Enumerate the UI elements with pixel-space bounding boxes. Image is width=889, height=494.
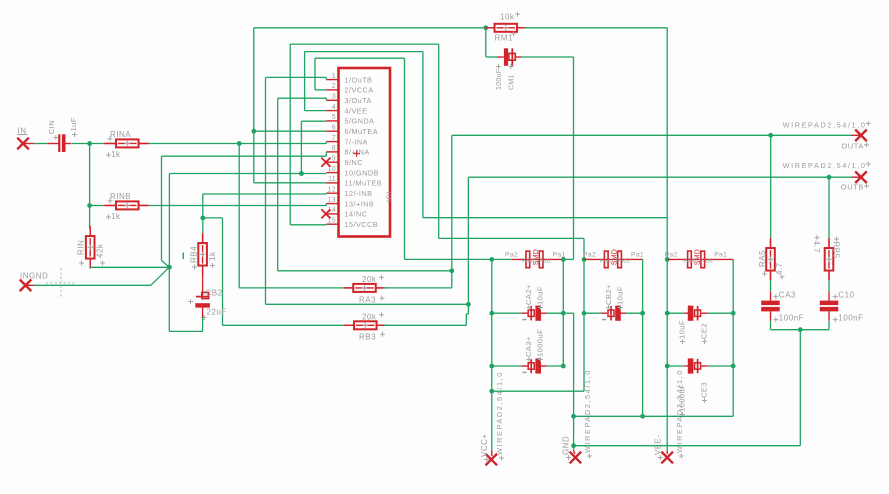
- svg-text:RINB: RINB: [110, 192, 131, 201]
- wire VEE vertical: [304, 52, 306, 111]
- wire -INB down: [202, 194, 204, 218]
- wire: [89, 206, 91, 229]
- svg-text:1k: 1k: [111, 150, 121, 159]
- svg-text:4.7: 4.7: [812, 241, 821, 254]
- wire: [89, 144, 91, 206]
- resistor RIN 42k: [89, 226, 91, 268]
- pin 6 6/MuTEA stub: [326, 130, 339, 132]
- capacitor CB2 10uF: [610, 306, 612, 320]
- RM1 right lead: [517, 27, 524, 29]
- wire INGND run: [33, 284, 151, 286]
- RB4 top lead: [202, 236, 204, 244]
- jog at pin15: [325, 223, 327, 226]
- RB4 to CB2 stub: [202, 266, 204, 296]
- svg-text:OUTB: OUTB: [841, 183, 864, 192]
- svg-text:CA3: CA3: [779, 290, 796, 299]
- OUTB pad stub: [851, 176, 861, 178]
- wire pin1 OuTB row: [266, 303, 469, 305]
- wire filter ground return: [574, 445, 801, 447]
- junction OUTB to RB5: [827, 175, 832, 180]
- wire: [702, 365, 708, 367]
- pin 2 2/VCCA stub: [326, 89, 339, 91]
- pin 11 11/MuTEB stub: [326, 182, 339, 184]
- CIN right stub: [66, 143, 72, 145]
- capacitor CIN 1uF: [58, 134, 60, 152]
- wire pin3 vertical: [277, 98, 279, 271]
- junction input node B: [87, 203, 92, 208]
- svg-text:22uF: 22uF: [207, 308, 227, 317]
- svg-text:1k: 1k: [208, 251, 217, 261]
- svg-text:WIREPAD2,54/1,0: WIREPAD2,54/1,0: [495, 371, 504, 455]
- svg-text:RB4: RB4: [190, 246, 199, 263]
- wire: [547, 365, 564, 367]
- junction CB2 right: [640, 311, 645, 316]
- Pa2 stub group2: [584, 258, 613, 260]
- svg-text:CB2+: CB2+: [604, 284, 613, 305]
- wire VCCB top row: [290, 43, 439, 45]
- OUTA pad stub: [851, 134, 861, 136]
- svg-text:C10: C10: [838, 290, 854, 299]
- wire: [492, 365, 522, 367]
- wire: [541, 365, 547, 367]
- svg-text:10k: 10k: [500, 12, 515, 21]
- wire ground column: [168, 174, 170, 268]
- junction group1 Pa1: [561, 257, 566, 262]
- svg-text:RB5: RB5: [831, 242, 840, 259]
- svg-text:Pad2: Pad2: [683, 258, 697, 264]
- Pa2 stub group3: [667, 258, 696, 260]
- wire GND tie row: [574, 415, 734, 417]
- svg-text:VCC+: VCC+: [480, 433, 489, 457]
- pad X: [321, 158, 330, 167]
- sheet origin cross: [46, 268, 76, 298]
- wire: [491, 451, 493, 457]
- svg-text:WIREPAD2,54/1,0: WIREPAD2,54/1,0: [583, 369, 592, 453]
- junction GND return tie: [571, 443, 576, 448]
- wire VCC+ tie row: [492, 390, 584, 392]
- wire OUTB row: [468, 176, 851, 178]
- wire VEE across to VEE column: [423, 217, 667, 219]
- pin 14 14/NC stub: [326, 213, 339, 215]
- wire VCCB vertical: [289, 44, 291, 225]
- svg-text:IC1: IC1: [387, 190, 394, 202]
- pad X: [17, 138, 29, 150]
- svg-text:6/MuTEA: 6/MuTEA: [345, 127, 379, 136]
- svg-text:9: 9: [332, 155, 336, 162]
- RA5 top lead: [770, 239, 772, 248]
- wire C10 bottom: [828, 321, 830, 330]
- pin 4 4/VEE stub: [326, 110, 339, 112]
- RA3 right lead: [376, 287, 383, 289]
- wire: [684, 365, 688, 367]
- wire jog to GND drop: [563, 312, 573, 314]
- jog at pin13: [325, 204, 327, 206]
- svg-text:INGND: INGND: [20, 272, 48, 281]
- pin 13 13/+INB stub: [326, 203, 339, 205]
- svg-text:100nF: 100nF: [779, 313, 804, 322]
- svg-text:1k: 1k: [111, 212, 121, 221]
- wire RM1 to VEE column: [525, 27, 668, 29]
- svg-text:Pa2: Pa2: [583, 252, 596, 259]
- wire -INB to RB3 leg: [203, 217, 223, 219]
- wire diagonal to ground node: [151, 267, 170, 285]
- RINA left lead: [104, 143, 116, 145]
- svg-text:1: 1: [332, 73, 336, 80]
- wire VCCA vertical: [314, 58, 316, 90]
- svg-text:3/OuTA: 3/OuTA: [345, 96, 372, 105]
- wire: [708, 312, 734, 314]
- wire OUTA leg vertical: [451, 136, 453, 288]
- svg-text:CB2: CB2: [206, 288, 223, 297]
- wire VCCA top row: [315, 57, 405, 59]
- op-amp IC1 body: [339, 68, 391, 237]
- capacitor C10 100nF: [820, 301, 839, 306]
- svg-text:15: 15: [328, 217, 336, 224]
- svg-text:100uF: 100uF: [496, 69, 503, 90]
- pin 15 15/VCCB stub: [326, 223, 339, 225]
- svg-text:WIREPAD2,54/1,0: WIREPAD2,54/1,0: [783, 121, 867, 130]
- jog: [466, 313, 468, 315]
- wire pin6 MuTEA: [254, 130, 326, 132]
- wire pin3 OuTA row: [278, 270, 452, 272]
- jumper SMD2 pads Pa1/Pa2: [604, 251, 608, 268]
- wire -INA feedback vertical: [238, 144, 240, 288]
- RB5 bottom lead: [828, 271, 830, 281]
- svg-text:IN: IN: [18, 126, 27, 135]
- junction group2 Pa2: [582, 257, 587, 262]
- IC symbol origin cross: [353, 150, 360, 157]
- pad X: [20, 280, 32, 292]
- svg-text:6: 6: [332, 124, 336, 131]
- junction mute node: [483, 25, 488, 30]
- junction group3 Pa2: [665, 257, 670, 262]
- RM1 left lead: [488, 27, 495, 29]
- pin 7 7/-INA stub: [326, 141, 339, 143]
- RINB left lead: [104, 205, 116, 207]
- RB5 top lead: [828, 239, 830, 248]
- svg-text:RIN: RIN: [77, 240, 86, 255]
- wire: [492, 312, 522, 314]
- svg-text:Pad2: Pad2: [522, 258, 536, 264]
- wire: [667, 312, 684, 314]
- wire OUTA row: [452, 134, 851, 136]
- svg-text:20k: 20k: [362, 313, 377, 322]
- CB2 bottom stub: [202, 308, 204, 318]
- junction OUTB net: [466, 302, 471, 307]
- wire RIN to ground node: [90, 266, 169, 268]
- svg-text:5: 5: [332, 114, 336, 121]
- wire: [620, 312, 626, 314]
- wire: [541, 312, 547, 314]
- wire VEE top row: [305, 51, 423, 53]
- wire pin8 ground leg: [162, 155, 327, 157]
- svg-text:Pad2: Pad2: [537, 258, 551, 264]
- svg-text:CA2+: CA2+: [524, 284, 533, 305]
- resistor RA3 20k: [343, 287, 386, 289]
- RINB right lead: [139, 205, 149, 207]
- wire -INB to RB4: [202, 218, 204, 236]
- svg-text:Pa1: Pa1: [631, 252, 644, 259]
- pin 12 12/-INB stub: [326, 192, 339, 194]
- wire into Pa2 of group 2: [583, 238, 585, 259]
- pin 5 5/GNDA stub: [326, 120, 339, 122]
- jumper SMD1 pads Pa1/Pa2: [526, 251, 530, 268]
- jog at pin12: [325, 192, 327, 195]
- C10 top lead: [828, 291, 830, 301]
- svg-text:2: 2: [332, 83, 336, 90]
- capacitor CA3 100nF: [761, 301, 780, 306]
- Pa1 stub group3: [696, 258, 733, 260]
- wire GND drop: [573, 313, 575, 450]
- wire: [521, 312, 527, 314]
- svg-text:CE2: CE2: [700, 323, 709, 339]
- svg-text:12/-INB: 12/-INB: [345, 189, 373, 198]
- wire pin3 OuTA: [278, 97, 327, 99]
- RINA right lead: [139, 143, 149, 145]
- svg-text:10/GNDB: 10/GNDB: [345, 168, 379, 177]
- jumper SMD3 pads Pa1/Pa2: [688, 251, 692, 268]
- svg-text:1000uF: 1000uF: [535, 329, 544, 357]
- svg-text:13/+INB: 13/+INB: [345, 199, 375, 208]
- wire filter ground drop: [799, 330, 801, 446]
- svg-text:3: 3: [332, 93, 336, 100]
- Pa2 stub group1: [512, 258, 535, 260]
- svg-text:4: 4: [332, 104, 336, 111]
- junction CA2 left: [489, 311, 494, 316]
- junction GND tie: [571, 414, 576, 419]
- wire pin4 VEE: [305, 110, 327, 112]
- wire pin1 OuTB: [266, 76, 327, 78]
- wire: [168, 267, 170, 331]
- wire GNDA down to GNDB: [300, 121, 302, 173]
- wire: [708, 365, 734, 367]
- svg-text:WIREPAD2,54/1,0: WIREPAD2,54/1,0: [675, 369, 684, 453]
- svg-text:Pa2: Pa2: [505, 252, 518, 259]
- svg-text:CE3: CE3: [700, 382, 709, 398]
- svg-text:4/VEE: 4/VEE: [345, 106, 368, 115]
- junction OUTA net: [449, 268, 454, 273]
- wire RINB to pin13: [149, 205, 327, 207]
- wire group2 left rail: [583, 259, 585, 391]
- junction mute A: [251, 129, 256, 134]
- junction CE2 left: [665, 311, 670, 316]
- wire VCCA down to bank row: [404, 58, 406, 259]
- wire IN to CIN: [34, 143, 47, 145]
- svg-text:RA5: RA5: [758, 250, 767, 267]
- wire: [547, 312, 564, 314]
- wire: [666, 451, 668, 455]
- junction CA3 left: [489, 364, 494, 369]
- wire to CM1: [486, 56, 498, 58]
- Pa1 stub group2: [613, 258, 643, 260]
- CM1 right lead: [516, 56, 522, 58]
- svg-text:2/VCCA: 2/VCCA: [345, 86, 374, 95]
- junction GND at pin10: [299, 171, 304, 176]
- junction VCC+ rail top: [489, 257, 494, 262]
- pin 9 9/NC stub: [326, 161, 339, 163]
- jog at pin7: [325, 142, 327, 144]
- wire bank row VCC feed: [405, 258, 512, 260]
- CA3 bottom lead: [770, 311, 772, 321]
- RIN bottom lead: [89, 259, 91, 268]
- stray wire tick: [182, 253, 184, 260]
- pad X: [570, 452, 582, 464]
- svg-text:Pad2: Pad2: [600, 258, 614, 264]
- svg-text:10uF: 10uF: [678, 320, 687, 339]
- junction CE3 right: [731, 364, 736, 369]
- svg-text:10: 10: [328, 166, 336, 173]
- wire OUTB down to RB5: [828, 177, 830, 239]
- junction CE2 right: [731, 311, 736, 316]
- wire pin10 GNDB row: [169, 173, 326, 175]
- pad X: [855, 130, 867, 142]
- junction group2 rail bottom: [640, 414, 645, 419]
- wire node B to RINB: [90, 205, 104, 207]
- svg-text:12: 12: [328, 186, 336, 193]
- junction feedback A tap: [237, 141, 242, 146]
- INGND pad stub: [26, 284, 34, 286]
- svg-text:10uF: 10uF: [535, 286, 544, 305]
- wire RB5 to C10: [828, 280, 830, 291]
- wire: [667, 365, 684, 367]
- RA3 left lead: [346, 287, 355, 289]
- wire VCCB to cap bank: [439, 237, 584, 239]
- svg-text:OUTA: OUTA: [841, 142, 864, 151]
- svg-text:42k: 42k: [96, 243, 105, 258]
- svg-text:7: 7: [332, 135, 336, 142]
- junction OUTA to RA5: [768, 133, 773, 138]
- svg-text:5/GNDA: 5/GNDA: [345, 117, 375, 126]
- capacitor CB2 22uF: [196, 296, 210, 298]
- wire: [574, 451, 575, 455]
- junction CA2 right: [561, 311, 566, 316]
- junction VCC+ tie: [489, 389, 494, 394]
- junction CE3 left: [665, 364, 670, 369]
- wire pin15 VCCB: [290, 224, 326, 226]
- svg-text:RA3: RA3: [359, 296, 376, 305]
- wire pin5 GNDA: [301, 120, 326, 122]
- RIN top lead: [89, 229, 91, 237]
- wire CB2 bottom: [202, 318, 204, 332]
- svg-text:1/OuTB: 1/OuTB: [345, 75, 373, 84]
- svg-text:CA3+: CA3+: [524, 336, 533, 357]
- wire mute top row: [254, 27, 494, 29]
- wire pin8 leg vertical: [161, 156, 163, 260]
- wire group2 right rail: [642, 259, 644, 416]
- RB3 left lead: [347, 324, 356, 326]
- wire: [601, 312, 607, 314]
- resistor RINB 1k: [106, 204, 149, 206]
- svg-text:CM1: CM1: [509, 74, 516, 90]
- junction signal ground node: [167, 265, 172, 270]
- svg-text:Pad2: Pad2: [699, 258, 713, 264]
- svg-text:11/MuTEB: 11/MuTEB: [345, 179, 383, 188]
- capacitor CE2 10uF: [688, 306, 694, 321]
- pad X: [486, 454, 498, 466]
- wire RB3 leg vertical: [222, 218, 224, 325]
- jog at pin3: [325, 98, 327, 100]
- wire group3 right rail: [732, 259, 734, 416]
- wire filter ground row: [771, 329, 829, 331]
- wire RB3 to OUTB leg: [384, 324, 467, 326]
- wire CIN to RINA: [72, 143, 104, 145]
- C10 bottom lead: [828, 311, 830, 321]
- wire to RA3: [239, 287, 346, 289]
- svg-text:14/NC: 14/NC: [345, 210, 368, 219]
- svg-text:13: 13: [328, 197, 336, 204]
- wire group1 right rail: [562, 259, 564, 366]
- wire pin12 -INB row: [203, 193, 326, 195]
- jog at pin1: [325, 77, 327, 79]
- wire RINA to pin7: [149, 143, 327, 145]
- svg-text:10uF: 10uF: [616, 286, 625, 305]
- svg-text:CIN: CIN: [47, 120, 56, 134]
- wire RA3 to OUTA leg: [383, 287, 452, 289]
- wire VEE right vertical: [422, 52, 424, 218]
- wire: [521, 365, 527, 367]
- svg-text:VEE-: VEE-: [653, 434, 662, 455]
- pin 1 1/OuTB stub: [326, 79, 339, 81]
- svg-text:9/NC: 9/NC: [345, 158, 363, 167]
- wire pin1 vertical: [265, 77, 267, 304]
- junction input node A: [87, 141, 92, 146]
- pin 8 8/+INA stub: [326, 151, 339, 153]
- svg-text:Pad2: Pad2: [616, 258, 630, 264]
- svg-text:1uF: 1uF: [69, 117, 78, 131]
- wire VCCB right vertical: [438, 44, 440, 238]
- svg-text:WIREPAD2,54/1,0: WIREPAD2,54/1,0: [783, 161, 867, 170]
- wire diagonal into ground node: [162, 261, 170, 268]
- wire GND column upper: [573, 57, 575, 259]
- wire mute node down: [485, 28, 487, 57]
- CIN left lead: [47, 143, 58, 145]
- wire jog to GND column: [563, 258, 573, 260]
- wire pin11 MuTEB: [254, 182, 326, 184]
- wire: [666, 28, 668, 451]
- wire to RB3: [223, 324, 347, 326]
- wire CM1 to GND column: [522, 56, 574, 58]
- wire OUTB leg vertical: [467, 177, 469, 314]
- junction -INB node: [200, 216, 205, 221]
- RB3 right lead: [377, 324, 384, 326]
- resistor RINA 1k: [106, 142, 149, 144]
- wire: [626, 312, 642, 314]
- pad X: [321, 209, 330, 218]
- CA3 top lead: [770, 291, 772, 301]
- svg-text:20k: 20k: [362, 275, 377, 284]
- svg-text:8: 8: [332, 145, 336, 152]
- svg-text:Pa1: Pa1: [714, 252, 727, 259]
- svg-text:7/-INA: 7/-INA: [345, 137, 368, 146]
- CM1 left lead: [498, 56, 504, 58]
- jog at pin8: [325, 152, 327, 156]
- svg-text:15/VCCB: 15/VCCB: [345, 220, 379, 229]
- wire: [584, 312, 601, 314]
- wire OUTB leg jog lower: [465, 314, 467, 325]
- svg-text:GND: GND: [562, 436, 571, 455]
- junction CB2 left: [582, 311, 587, 316]
- capacitor CE3 1000uF: [688, 358, 694, 373]
- svg-text:RINA: RINA: [110, 130, 131, 139]
- wire VCC+ rail: [491, 259, 493, 450]
- wire mute vertical: [253, 28, 255, 183]
- IN pad stub: [23, 143, 34, 145]
- svg-text:4.7: 4.7: [775, 262, 784, 275]
- wire CA3 bottom: [770, 321, 772, 330]
- pad X: [855, 171, 867, 183]
- Pa1 stub group1: [534, 258, 563, 260]
- svg-text:11: 11: [328, 176, 336, 183]
